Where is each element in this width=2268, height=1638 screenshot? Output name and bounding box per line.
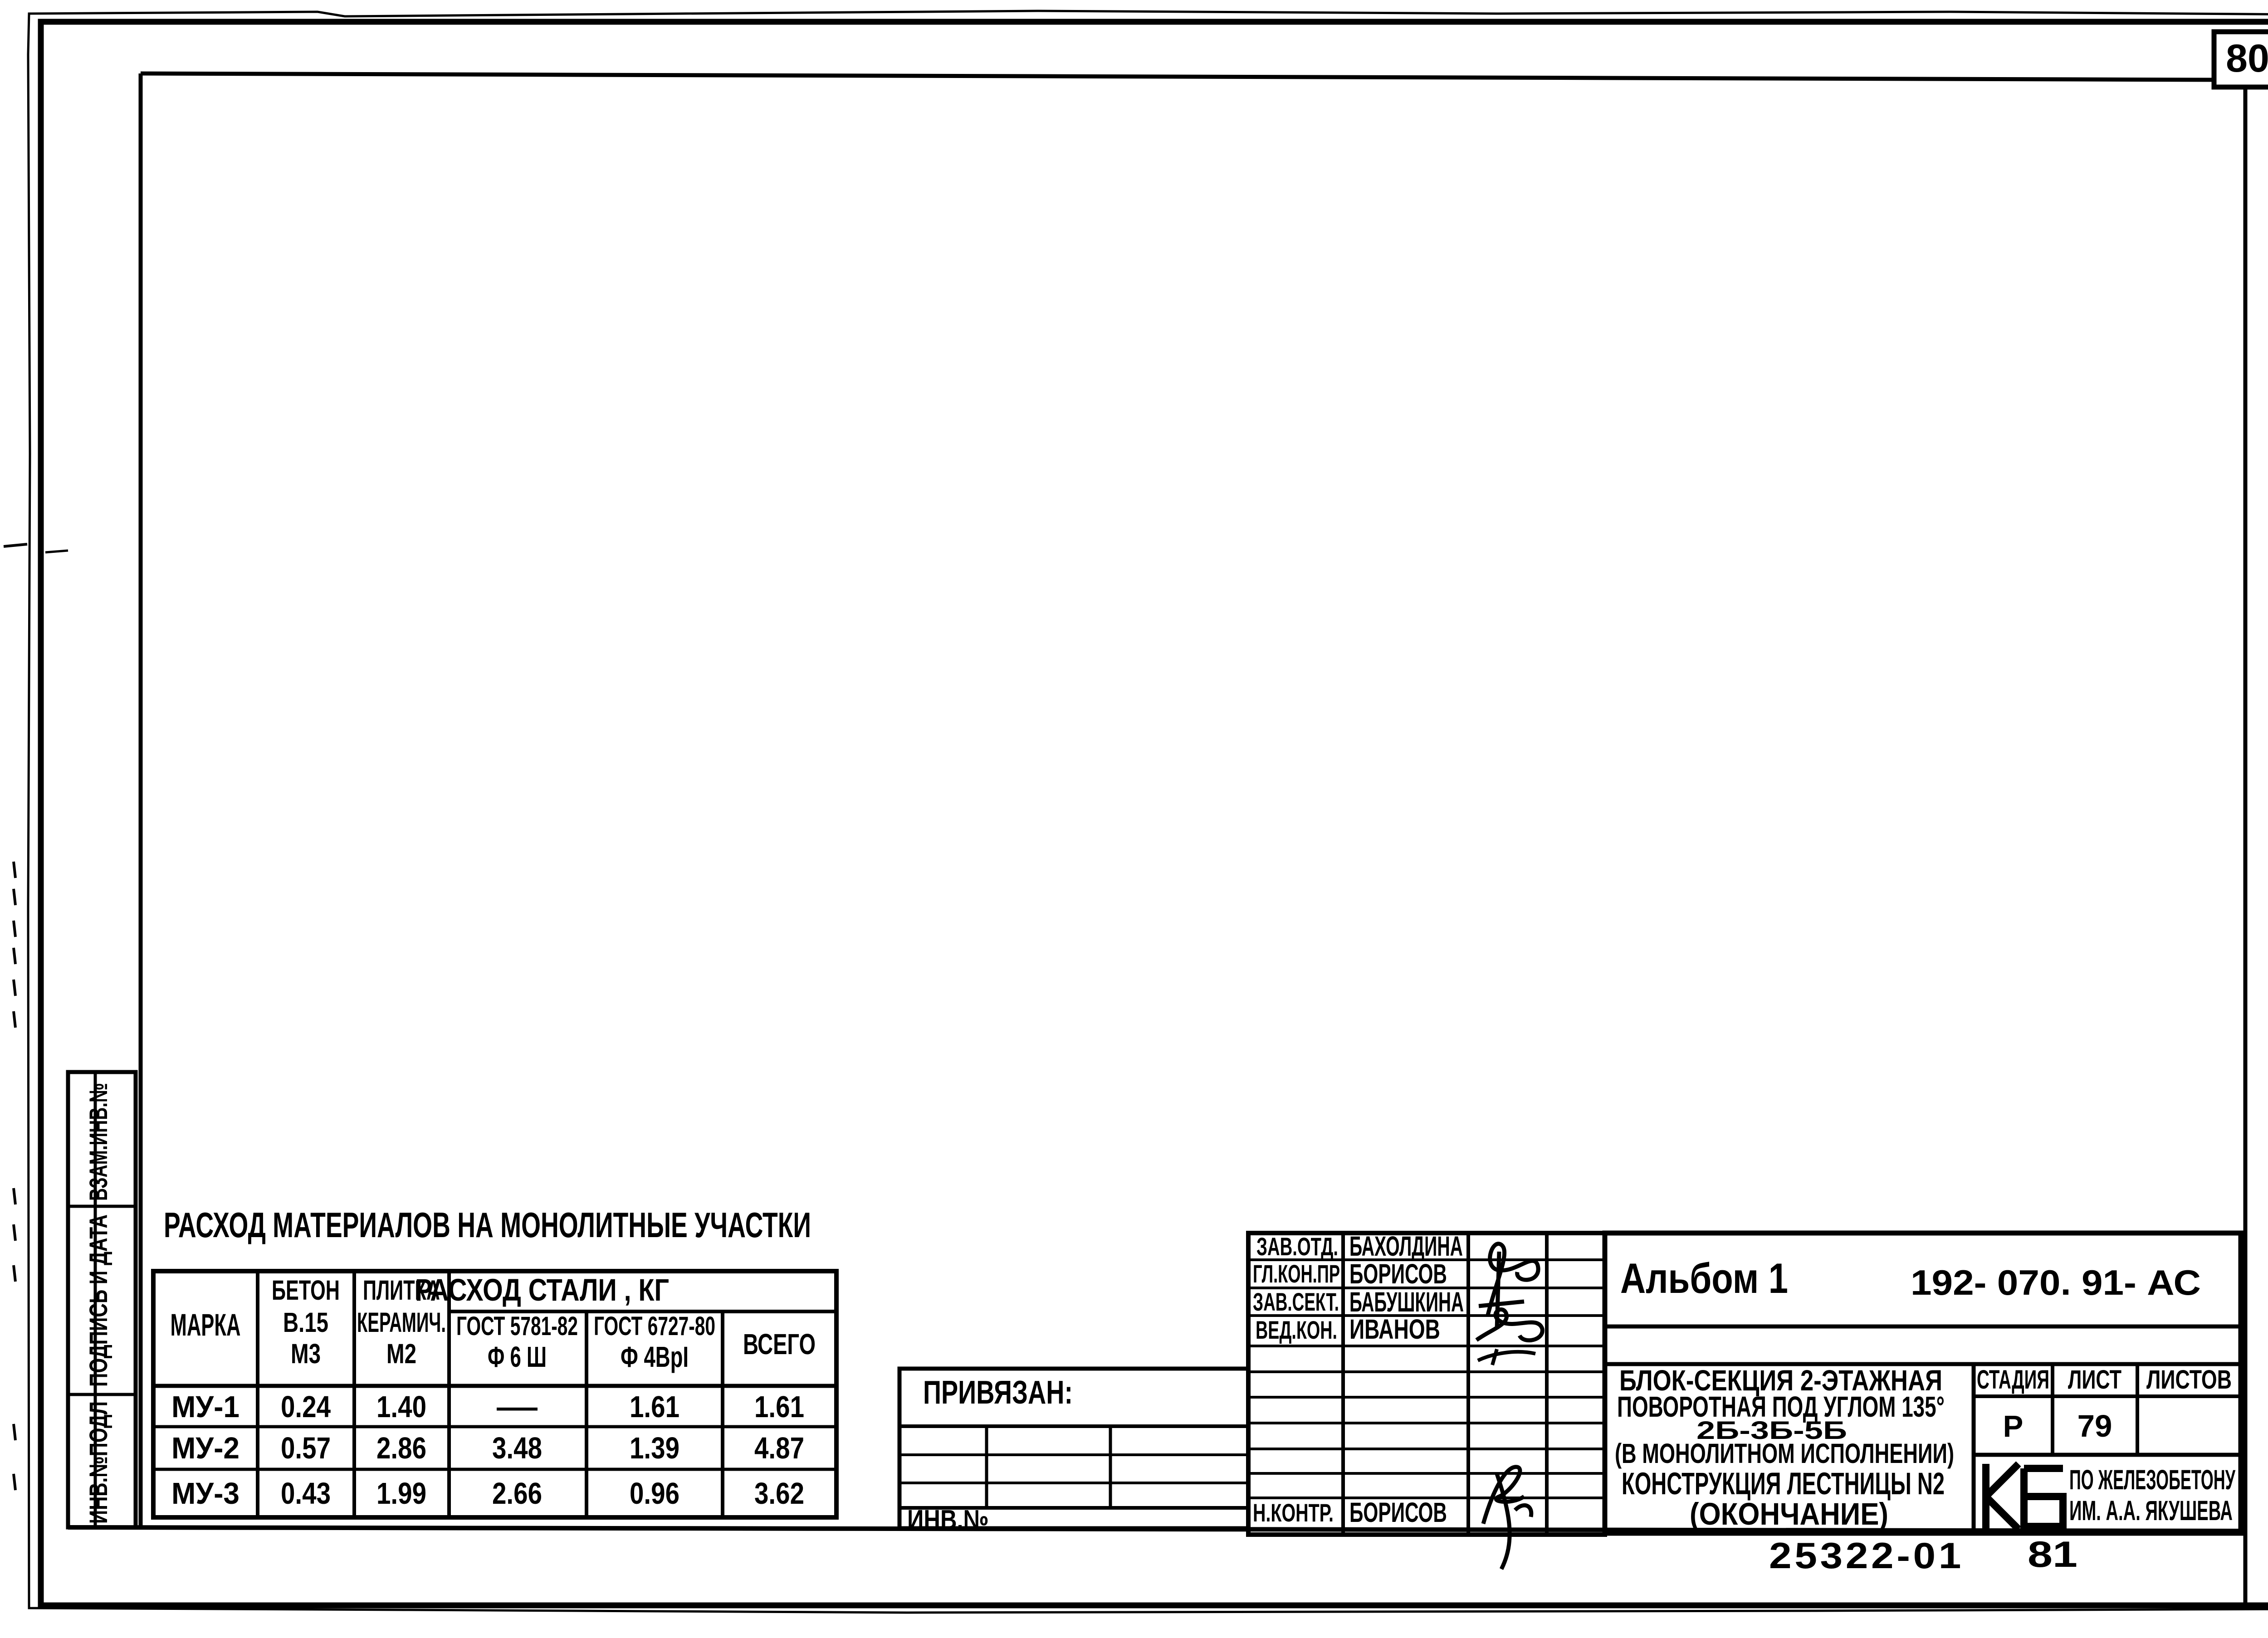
- svg-text:ИНВ.№: ИНВ.№: [907, 1504, 989, 1535]
- svg-text:ЗАВ.ОТД.: ЗАВ.ОТД.: [1256, 1232, 1338, 1261]
- svg-text:3.62: 3.62: [754, 1477, 804, 1511]
- svg-text:Ф 4ВрI: Ф 4ВрI: [621, 1341, 689, 1373]
- svg-text:ВЗАМ.ИНВ.№: ВЗАМ.ИНВ.№: [84, 1083, 112, 1201]
- svg-text:ЗАВ.СЕКТ.: ЗАВ.СЕКТ.: [1253, 1287, 1339, 1316]
- svg-text:МУ-2: МУ-2: [171, 1431, 240, 1465]
- svg-text:ГОСТ 5781-82: ГОСТ 5781-82: [456, 1311, 578, 1341]
- svg-text:МУ-1: МУ-1: [171, 1390, 240, 1424]
- svg-text:4.87: 4.87: [754, 1431, 804, 1465]
- svg-text:БАХОЛДИНА: БАХОЛДИНА: [1349, 1231, 1463, 1262]
- inner drawing frame top: [141, 73, 2214, 80]
- svg-text:1.40: 1.40: [376, 1390, 426, 1424]
- svg-text:М2: М2: [386, 1338, 416, 1369]
- svg-text:ИВАНОВ: ИВАНОВ: [1349, 1314, 1440, 1345]
- svg-text:СТАДИЯ: СТАДИЯ: [1977, 1365, 2049, 1394]
- svg-text:(ОКОНЧАНИЕ): (ОКОНЧАНИЕ): [1690, 1497, 1888, 1531]
- svg-text:М3: М3: [291, 1338, 321, 1369]
- signature table frame: [1248, 1233, 1605, 1535]
- svg-text:2.66: 2.66: [492, 1477, 542, 1511]
- svg-text:2.86: 2.86: [376, 1431, 426, 1465]
- svg-text:0.24: 0.24: [281, 1390, 331, 1424]
- svg-text:ПЛИТКА: ПЛИТКА: [363, 1275, 440, 1306]
- svg-text:Альбом 1: Альбом 1: [1620, 1254, 1788, 1302]
- stadia list table: [1972, 1364, 1976, 1533]
- svg-text:1.99: 1.99: [376, 1477, 426, 1511]
- svg-text:79: 79: [2077, 1409, 2112, 1443]
- svg-text:ПО ЖЕЛЕЗОБЕТОНУ: ПО ЖЕЛЕЗОБЕТОНУ: [2069, 1464, 2236, 1495]
- svg-text:80: 80: [2226, 37, 2268, 80]
- svg-text:1.61: 1.61: [630, 1390, 679, 1424]
- svg-text:ВСЕГО: ВСЕГО: [743, 1328, 816, 1360]
- svg-text:ПРИВЯЗАН:: ПРИВЯЗАН:: [923, 1375, 1073, 1411]
- svg-text:81: 81: [2028, 1534, 2077, 1575]
- svg-text:БОРИСОВ: БОРИСОВ: [1349, 1258, 1447, 1289]
- svg-text:КОНСТРУКЦИЯ ЛЕСТНИЦЫ N2: КОНСТРУКЦИЯ ЛЕСТНИЦЫ N2: [1622, 1466, 1945, 1501]
- svg-text:ГЛ.КОН.ПР: ГЛ.КОН.ПР: [1253, 1259, 1340, 1288]
- svg-text:РАСХОД СТАЛИ , КГ: РАСХОД СТАЛИ , КГ: [415, 1272, 669, 1307]
- svg-text:БЕТОН: БЕТОН: [272, 1275, 340, 1306]
- svg-text:Н.КОНТР.: Н.КОНТР.: [1253, 1498, 1334, 1527]
- svg-text:0.57: 0.57: [281, 1431, 331, 1465]
- svg-text:МУ-3: МУ-3: [171, 1477, 240, 1511]
- svg-text:25322-01: 25322-01: [1769, 1536, 1964, 1576]
- inner drawing frame bottom: [68, 1527, 2245, 1531]
- svg-text:ВЕД.КОН.: ВЕД.КОН.: [1256, 1316, 1337, 1344]
- materials table grid: [153, 1271, 836, 1517]
- svg-text:Ф 6 Ш: Ф 6 Ш: [488, 1341, 547, 1373]
- svg-text:КЕРАМИЧ.: КЕРАМИЧ.: [357, 1307, 446, 1338]
- svg-text:1.39: 1.39: [630, 1431, 679, 1465]
- svg-text:БОРИСОВ: БОРИСОВ: [1349, 1497, 1447, 1528]
- svg-text:МАРКА: МАРКА: [171, 1307, 241, 1342]
- KB logo: [1986, 1464, 2019, 1529]
- inner drawing frame right: [2244, 86, 2248, 1605]
- stamp strip frame: [68, 1072, 136, 1527]
- svg-text:0.96: 0.96: [630, 1477, 679, 1511]
- svg-text:ГОСТ 6727-80: ГОСТ 6727-80: [594, 1311, 715, 1341]
- sheet number box 80: [2214, 32, 2268, 87]
- svg-text:ИМ. А.А. ЯКУШЕВА: ИМ. А.А. ЯКУШЕВА: [2069, 1495, 2233, 1526]
- svg-text:ПОДПИСЬ И ДАТА: ПОДПИСЬ И ДАТА: [84, 1214, 112, 1387]
- scan noise left margin: [14, 862, 15, 878]
- svg-text:1.61: 1.61: [754, 1390, 804, 1424]
- svg-text:—: —: [497, 1390, 538, 1424]
- svg-text:ИНВ.№ПОДЛ: ИНВ.№ПОДЛ: [84, 1401, 112, 1524]
- svg-text:(В МОНОЛИТНОМ ИСПОЛНЕНИИ): (В МОНОЛИТНОМ ИСПОЛНЕНИИ): [1615, 1438, 1954, 1469]
- svg-text:В.15: В.15: [283, 1307, 328, 1338]
- svg-text:0.43: 0.43: [281, 1477, 331, 1511]
- signature squiggles: [1488, 1244, 1538, 1315]
- svg-text:192- 070. 91- АС: 192- 070. 91- АС: [1911, 1263, 2201, 1302]
- svg-text:ЛИСТ: ЛИСТ: [2068, 1365, 2121, 1394]
- svg-text:БАБУШКИНА: БАБУШКИНА: [1349, 1287, 1464, 1317]
- inner drawing frame left: [139, 73, 143, 1527]
- svg-text:3.48: 3.48: [492, 1431, 542, 1465]
- svg-text:ЛИСТОВ: ЛИСТОВ: [2146, 1365, 2232, 1394]
- svg-text:Р: Р: [2003, 1409, 2024, 1443]
- album header: [1605, 1325, 2241, 1329]
- svg-text:РАСХОД МАТЕРИАЛОВ НА МОНОЛИ: РАСХОД МАТЕРИАЛОВ НА МОНОЛИТНЫЕ УЧАСТКИ: [164, 1205, 811, 1245]
- privyazan block frame: [899, 1369, 1248, 1528]
- title block frame: [1605, 1233, 2241, 1533]
- band line: [1605, 1362, 2241, 1366]
